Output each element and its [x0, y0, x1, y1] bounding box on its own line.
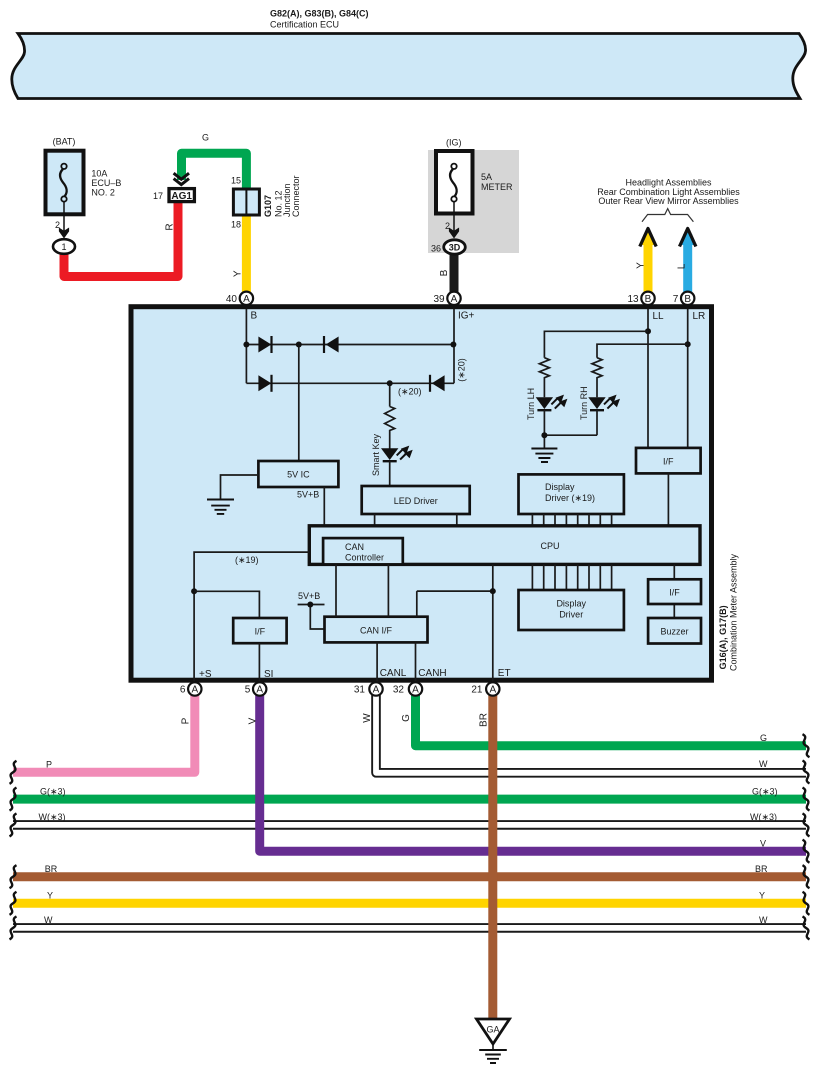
svg-text:Y: Y: [232, 270, 243, 277]
svg-text:A: A: [451, 294, 458, 305]
svg-text:5: 5: [245, 685, 251, 696]
svg-text:LL: LL: [653, 311, 665, 322]
svg-text:(IG): (IG): [446, 138, 462, 148]
svg-text:Smart Key: Smart Key: [371, 433, 381, 476]
svg-text:6: 6: [180, 685, 186, 696]
svg-text:Buzzer: Buzzer: [660, 627, 688, 637]
svg-text:NO. 2: NO. 2: [91, 188, 115, 198]
svg-text:B: B: [684, 294, 691, 305]
svg-text:ET: ET: [498, 668, 511, 679]
svg-text:7: 7: [673, 294, 679, 305]
svg-text:L: L: [677, 263, 688, 269]
svg-text:Turn RH: Turn RH: [579, 386, 589, 420]
svg-text:A: A: [412, 685, 419, 696]
svg-text:5V IC: 5V IC: [287, 470, 310, 480]
svg-text:P: P: [46, 759, 52, 769]
svg-text:Combination Meter Assembly: Combination Meter Assembly: [728, 553, 738, 671]
svg-text:1: 1: [61, 242, 66, 252]
svg-text:CANH: CANH: [418, 668, 446, 679]
svg-text:17: 17: [153, 191, 163, 201]
svg-text:Turn LH: Turn LH: [526, 388, 536, 420]
svg-text:Outer Rear View Mirror Assembl: Outer Rear View Mirror Assemblies: [598, 196, 739, 206]
svg-text:5A: 5A: [481, 172, 492, 182]
svg-text:36: 36: [431, 244, 441, 254]
svg-text:ECU–B: ECU–B: [91, 178, 121, 188]
svg-text:5V+B: 5V+B: [298, 591, 320, 601]
svg-text:LED Driver: LED Driver: [394, 496, 438, 506]
svg-text:B: B: [645, 294, 652, 305]
svg-text:32: 32: [393, 685, 405, 696]
svg-text:3D: 3D: [449, 242, 461, 252]
svg-text:W: W: [759, 915, 768, 925]
svg-text:Display: Display: [545, 482, 575, 492]
svg-text:W: W: [44, 915, 53, 925]
svg-text:Display: Display: [556, 599, 586, 609]
svg-text:31: 31: [354, 685, 366, 696]
svg-text:39: 39: [433, 294, 445, 305]
svg-text:A: A: [256, 685, 263, 696]
svg-text:A: A: [373, 685, 380, 696]
svg-text:W(∗3): W(∗3): [39, 812, 66, 822]
svg-text:40: 40: [226, 294, 238, 305]
svg-text:G: G: [202, 133, 209, 143]
svg-text:BR: BR: [45, 864, 58, 874]
svg-text:CANL: CANL: [380, 668, 407, 679]
svg-text:Driver (∗19): Driver (∗19): [545, 493, 595, 503]
svg-text:BR: BR: [479, 713, 490, 727]
svg-text:A: A: [243, 294, 250, 305]
svg-text:A: A: [191, 685, 198, 696]
svg-text:V: V: [248, 717, 259, 724]
svg-text:(BAT): (BAT): [53, 137, 76, 147]
svg-text:15: 15: [231, 176, 241, 186]
svg-text:Y: Y: [636, 262, 647, 269]
svg-text:21: 21: [471, 685, 483, 696]
svg-text:Controller: Controller: [345, 553, 384, 563]
svg-text:SI: SI: [264, 669, 273, 680]
svg-text:CPU: CPU: [540, 541, 559, 551]
svg-text:Y: Y: [759, 890, 765, 900]
svg-text:LR: LR: [693, 311, 706, 322]
svg-text:G(∗3): G(∗3): [40, 786, 66, 796]
svg-text:I/F: I/F: [663, 457, 674, 467]
svg-text:13: 13: [627, 294, 639, 305]
svg-text:W: W: [759, 759, 768, 769]
svg-text:R: R: [165, 223, 176, 230]
svg-text:B: B: [251, 311, 258, 322]
svg-text:AG1: AG1: [171, 191, 192, 202]
svg-text:BR: BR: [755, 864, 768, 874]
svg-text:G: G: [401, 714, 412, 722]
svg-text:I/F: I/F: [255, 627, 266, 637]
svg-text:Driver: Driver: [559, 610, 583, 620]
svg-text:W(∗3): W(∗3): [750, 812, 777, 822]
svg-text:G82(A), G83(B), G84(C): G82(A), G83(B), G84(C): [270, 9, 369, 19]
svg-text:A: A: [489, 685, 496, 696]
svg-text:GA: GA: [486, 1025, 499, 1035]
svg-text:18: 18: [231, 220, 241, 230]
svg-text:Y: Y: [47, 890, 53, 900]
svg-text:V: V: [760, 838, 766, 848]
svg-text:P: P: [181, 717, 192, 724]
svg-text:W: W: [362, 713, 373, 723]
svg-text:IG+: IG+: [458, 311, 475, 322]
svg-text:(∗20): (∗20): [457, 358, 467, 382]
svg-text:METER: METER: [481, 182, 513, 192]
svg-text:5V+B: 5V+B: [297, 490, 319, 500]
svg-text:CAN I/F: CAN I/F: [360, 626, 393, 636]
svg-text:G: G: [760, 733, 767, 743]
svg-text:G16(A), G17(B): G16(A), G17(B): [718, 605, 728, 669]
svg-text:G(∗3): G(∗3): [752, 786, 778, 796]
svg-text:10A: 10A: [91, 169, 107, 179]
svg-text:+S: +S: [199, 669, 212, 680]
svg-text:G107: G107: [263, 195, 273, 217]
svg-text:Certification ECU: Certification ECU: [270, 20, 339, 30]
svg-text:(∗19): (∗19): [235, 555, 259, 565]
svg-text:B: B: [439, 269, 450, 276]
svg-text:(∗20): (∗20): [398, 387, 422, 397]
svg-text:CAN: CAN: [345, 542, 364, 552]
svg-text:I/F: I/F: [669, 588, 680, 598]
svg-text:Connector: Connector: [291, 175, 301, 217]
